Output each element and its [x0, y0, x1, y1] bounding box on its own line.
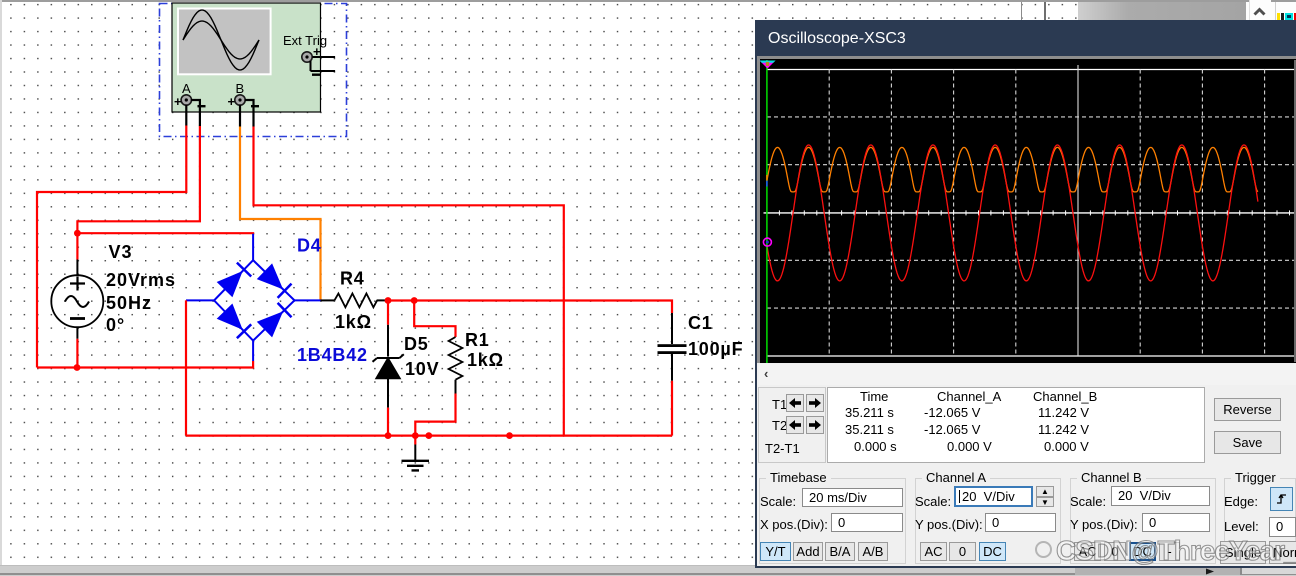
svg-text:R4: R4 — [340, 269, 365, 289]
svg-text:D4: D4 — [297, 236, 322, 256]
zener diode D5 — [373, 301, 404, 436]
svg-text:B: B — [236, 81, 245, 96]
svg-text:C1: C1 — [688, 313, 713, 333]
wire AC bottom to bridge bottom — [37, 361, 253, 368]
bridge D4 diamond — [186, 234, 321, 361]
node mid rail — [506, 432, 513, 439]
ground symbol — [402, 436, 430, 471]
wire bridge left red down — [185, 300, 187, 435]
left window border — [0, 0, 2, 575]
white area under arrow button — [1246, 2, 1296, 20]
node junction V3 top — [74, 230, 81, 237]
table — [827, 387, 1205, 463]
scope B- black stub — [245, 100, 254, 127]
T1 cursor green line — [766, 60, 768, 363]
node junction V3 bottom — [74, 364, 81, 371]
wire B+ orange — [240, 127, 321, 301]
AC source V3 — [51, 260, 103, 339]
wire V3 top lead red — [76, 233, 78, 259]
svg-text:100µF: 100µF — [688, 339, 743, 359]
Channel B group — [1070, 478, 1216, 564]
node ground — [412, 432, 419, 439]
scope A- black stub — [191, 100, 200, 126]
svg-text:50Hz: 50Hz — [106, 293, 152, 313]
wire junction V3+ to bridge top — [77, 232, 253, 235]
node extra — [425, 432, 432, 439]
selection dashed rectangle around scope icon — [160, 4, 347, 137]
Trigger group — [1224, 478, 1296, 564]
scroll up arrow button — [1249, 0, 1271, 20]
Timebase group — [759, 478, 906, 564]
Channel A group — [915, 478, 1061, 564]
diode D4-1 upper-left edge — [217, 263, 252, 298]
svg-text:R1: R1 — [465, 330, 490, 350]
horizontal axis — [764, 212, 1296, 214]
resistor R1 vertical — [414, 301, 462, 436]
terminal B — [228, 81, 260, 109]
vertical divider lines — [1021, 2, 1022, 20]
diode D4-3 lower-left edge — [217, 304, 252, 339]
blue mark on cursor — [766, 181, 768, 187]
diode D4-2 upper-right edge — [257, 263, 292, 298]
bottom-right scroll arrow — [1075, 568, 1240, 575]
capacitor C1 — [658, 313, 687, 436]
svg-text:20Vrms: 20Vrms — [106, 270, 176, 290]
node D5 bottom — [385, 432, 392, 439]
svg-text:+: + — [228, 94, 236, 109]
top rail to C1 — [414, 301, 672, 314]
svg-text:1kΩ: 1kΩ — [467, 350, 504, 370]
watermark — [1056, 535, 1296, 567]
Reverse / Save — [1214, 398, 1281, 421]
dashed horizontal gridlines — [767, 116, 1296, 118]
display outer frame — [757, 56, 1296, 363]
wire B- red long — [254, 127, 564, 436]
svg-text:V3: V3 — [109, 242, 133, 262]
channel B waveform — [767, 147, 1258, 192]
terminal A — [174, 81, 206, 109]
display right edge line — [1294, 60, 1296, 362]
wire A- red to V3+ junction — [77, 126, 199, 233]
dashed vertical gridlines — [828, 70, 830, 357]
title bar — [757, 20, 1296, 56]
scrollbar thumb — [1078, 2, 1246, 20]
svg-text:0°: 0° — [106, 315, 125, 335]
T1 marker triangle — [760, 61, 776, 69]
scope display SVG overlay (absolute page coords) — [755, 20, 1296, 568]
app top edge line — [0, 0, 1296, 2]
resistor R4 — [321, 294, 389, 308]
svg-text:+: + — [174, 94, 182, 109]
grid bottom border — [767, 355, 1296, 357]
vertical center axis — [1077, 65, 1079, 356]
scope B+ black stub — [239, 105, 241, 127]
svg-text:1B4B42: 1B4B42 — [297, 345, 368, 365]
T1 T2 block — [758, 387, 826, 463]
scrollbar under display — [759, 364, 1296, 385]
svg-text:D5: D5 — [404, 334, 429, 354]
svg-text:1kΩ: 1kΩ — [335, 312, 372, 332]
wire node to R1 node — [388, 299, 414, 301]
node R4 out — [385, 297, 392, 304]
grid top border — [767, 69, 1296, 71]
scope A+ black stub — [185, 105, 187, 126]
bottom rail — [186, 435, 672, 437]
oscilloscope icon XSC3 body — [172, 3, 321, 112]
diode D4-4 lower-right edge — [257, 303, 292, 338]
wire V3 bottom red — [76, 339, 78, 368]
svg-text:A: A — [182, 81, 191, 96]
svg-text:10V: 10V — [405, 359, 439, 379]
orange mark on cursor — [766, 175, 768, 181]
T2 marker circle — [763, 238, 771, 246]
Ext Trig terminal — [302, 44, 335, 76]
mini icon cluster — [1277, 13, 1280, 20]
wire A+ red: down, left, down left rail — [37, 126, 186, 368]
channel A waveform — [767, 145, 1258, 281]
